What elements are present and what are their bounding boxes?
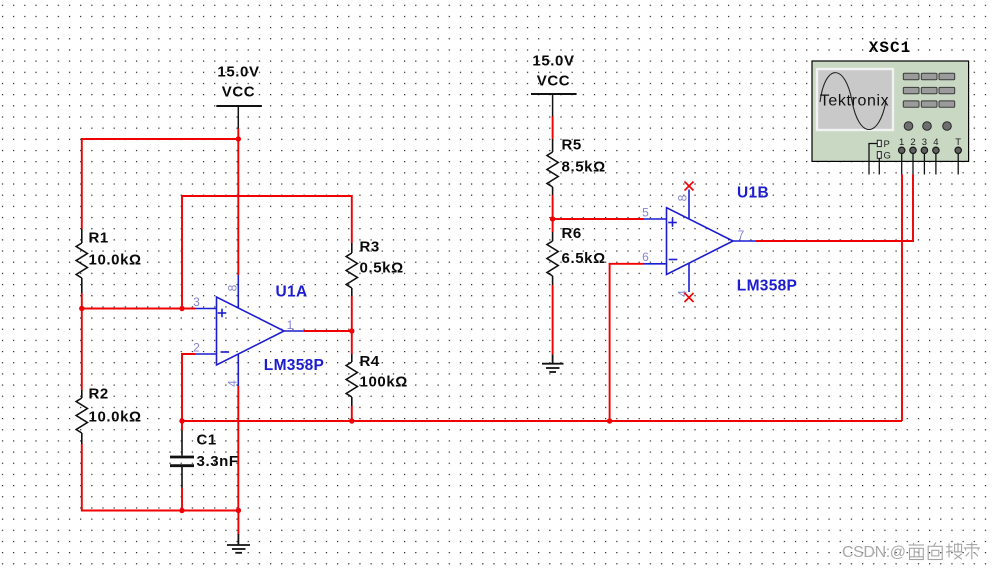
scope lead ch3	[923, 154, 925, 175]
wire long feedback rail	[182, 420, 902, 422]
svg-text:0.5kΩ: 0.5kΩ	[360, 260, 404, 277]
wire R5 bottom to node B	[552, 195, 554, 219]
wire U1A output to node	[304, 330, 352, 332]
scope screen	[817, 69, 893, 130]
scope lead ch2	[912, 154, 914, 175]
svg-text:2: 2	[193, 341, 200, 355]
scope lead T	[957, 154, 959, 175]
svg-text:R3: R3	[360, 239, 380, 256]
watermark CJK glyph mian	[909, 543, 925, 560]
wire R6 bottom to ground2	[552, 285, 554, 355]
resistor R4	[346, 354, 357, 406]
wire node A to R2 top	[81, 309, 83, 391]
svg-text:Tektronix: Tektronix	[820, 93, 889, 110]
svg-text:3: 3	[922, 137, 927, 148]
svg-text:3: 3	[193, 295, 200, 309]
svg-text:15.0V: 15.0V	[217, 64, 259, 81]
wire U1B output to scope ch2	[756, 175, 913, 242]
node R4 bottom junction	[349, 418, 354, 423]
unconnected pin X top U1B	[685, 182, 694, 191]
svg-text:R4: R4	[360, 353, 380, 370]
resistor R6	[547, 232, 558, 285]
svg-text:LM358P: LM358P	[264, 357, 324, 374]
unconnected pin X bottom U1B	[685, 293, 694, 302]
svg-text:VCC: VCC	[222, 84, 255, 101]
svg-text:100kΩ: 100kΩ	[360, 374, 408, 391]
resistor R3	[346, 243, 357, 296]
wire U1B pin6 to rail	[610, 264, 644, 421]
svg-text:U1B: U1B	[737, 185, 769, 202]
scope P connector	[877, 140, 881, 146]
resistor R2	[76, 390, 87, 444]
svg-text:R1: R1	[89, 230, 109, 247]
svg-text:C1: C1	[197, 432, 217, 449]
wire R4 bottom to rail	[351, 406, 353, 421]
svg-text:8: 8	[676, 194, 690, 201]
svg-text:3.3nF: 3.3nF	[197, 453, 239, 470]
wire node A row to U1A pin3	[82, 308, 195, 310]
svg-text:T: T	[955, 137, 961, 148]
op-amp U1A	[195, 275, 304, 386]
scope sine wave	[820, 73, 886, 130]
watermark CJK glyph sou	[946, 543, 962, 560]
svg-text:R6: R6	[562, 225, 582, 242]
svg-text:R2: R2	[89, 386, 109, 403]
scope knobs	[904, 122, 951, 131]
node R5/R6 junction	[550, 216, 555, 221]
svg-text:10.0kΩ: 10.0kΩ	[89, 252, 142, 269]
svg-text:CSDN:@: CSDN:@	[842, 544, 906, 561]
svg-text:5: 5	[642, 206, 649, 220]
node VCC junction	[236, 136, 241, 141]
scope lead G	[878, 158, 880, 174]
wire VCC rail to R1 top	[82, 139, 239, 229]
svg-text:G: G	[884, 151, 891, 162]
svg-text:10.0kΩ: 10.0kΩ	[89, 409, 142, 426]
wire U1A pin4 down to bottom rail	[237, 386, 239, 511]
wire node B to R6 top	[552, 219, 554, 232]
svg-text:U1A: U1A	[276, 284, 308, 301]
resistor R5	[547, 139, 558, 195]
svg-text:8.5kΩ: 8.5kΩ	[562, 159, 606, 176]
scope buttons grid	[903, 73, 954, 107]
svg-text:4: 4	[933, 137, 938, 148]
vcc source V1	[216, 106, 262, 129]
watermark CSDN	[842, 542, 980, 561]
watermark CJK glyph xiang	[928, 543, 942, 560]
vcc source V2	[531, 94, 577, 117]
wire R2 bottom to bottom rail	[82, 444, 239, 511]
svg-text:LM358P: LM358P	[737, 278, 797, 295]
oscilloscope XSC1	[812, 39, 969, 175]
svg-text:1: 1	[287, 318, 294, 332]
svg-text:8: 8	[226, 284, 240, 291]
svg-text:6.5kΩ: 6.5kΩ	[562, 250, 606, 267]
ground GND2	[542, 355, 564, 373]
node pin3 junction	[179, 306, 184, 311]
scope body	[812, 61, 969, 161]
svg-text:2: 2	[910, 137, 915, 148]
svg-text:4: 4	[226, 380, 240, 387]
node ground rail junction	[236, 508, 241, 513]
op-amp U1B	[644, 190, 756, 293]
wire VCC2 to R5	[552, 116, 554, 139]
svg-text:XSC1: XSC1	[869, 39, 911, 57]
scope lead P	[869, 144, 877, 175]
node A R1/R2 junction	[79, 306, 84, 311]
node C1 top junction	[179, 418, 184, 423]
node C1 bottom junction	[179, 508, 184, 513]
wire node B to U1B pin5	[553, 218, 644, 220]
wire output node to R4 top	[351, 331, 353, 354]
resistor R1	[76, 229, 87, 293]
wire R1 bottom to node A	[81, 293, 83, 309]
wire ground drop	[237, 511, 239, 535]
scope G connector	[877, 152, 881, 159]
svg-text:15.0V: 15.0V	[532, 53, 574, 70]
svg-text:R5: R5	[562, 137, 582, 154]
svg-text:1: 1	[899, 137, 904, 148]
capacitor C1	[170, 431, 194, 489]
wire R3 bottom to output node	[351, 296, 353, 331]
svg-text:6: 6	[642, 250, 649, 264]
scope lead ch4	[935, 154, 937, 175]
svg-text:VCC: VCC	[537, 73, 570, 90]
node U1A output junction	[349, 328, 354, 333]
watermark CJK glyph suo	[964, 542, 980, 559]
node pin6 rail junction	[607, 418, 612, 423]
svg-text:7: 7	[738, 228, 745, 242]
wire C1 bottom lead	[181, 488, 183, 511]
wire U1A pin2 to C1 node	[182, 354, 195, 421]
ground GND1	[227, 534, 250, 553]
wire C1 top lead	[181, 421, 183, 431]
svg-text:P: P	[884, 139, 890, 150]
wire scope ch1 down to rail	[901, 175, 903, 422]
wire VCC junction down to U1A pin8	[237, 129, 239, 276]
scope lead ch1	[901, 154, 903, 175]
scope terminals	[899, 147, 962, 153]
wire feedback top loop	[182, 196, 352, 309]
